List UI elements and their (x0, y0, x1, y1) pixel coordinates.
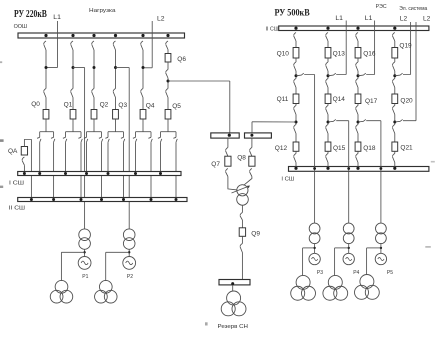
svg-text:L1: L1 (53, 14, 61, 21)
svg-text:Q20: Q20 (400, 98, 413, 105)
svg-text:II СШ: II СШ (9, 206, 25, 212)
svg-text:II СШ: II СШ (266, 27, 279, 33)
svg-text:Q17: Q17 (365, 98, 378, 105)
svg-text:Q21: Q21 (400, 145, 413, 152)
svg-text:Q7: Q7 (211, 161, 220, 168)
svg-text:Q1: Q1 (64, 101, 73, 108)
svg-text:Эл. система: Эл. система (399, 6, 427, 12)
svg-text:Q16: Q16 (363, 50, 376, 57)
svg-text:Q4: Q4 (146, 102, 155, 109)
svg-text:L1: L1 (335, 15, 343, 22)
svg-text:ООШ: ООШ (14, 24, 27, 30)
svg-text:Р2: Р2 (127, 274, 133, 280)
svg-text:L2: L2 (157, 16, 165, 23)
svg-text:L2: L2 (423, 16, 431, 23)
svg-text:РЭС: РЭС (376, 4, 387, 10)
svg-text:L2: L2 (400, 16, 408, 23)
svg-text:Q14: Q14 (333, 96, 346, 103)
svg-text:Q10: Q10 (277, 50, 290, 57)
svg-text:Нагрузка: Нагрузка (89, 8, 116, 14)
svg-text:Q6: Q6 (177, 56, 186, 63)
svg-text:Q13: Q13 (333, 50, 346, 57)
svg-text:Q8: Q8 (237, 154, 246, 161)
svg-text:Q15: Q15 (333, 145, 346, 152)
svg-text:Р1: Р1 (82, 274, 88, 280)
svg-text:L1: L1 (365, 15, 373, 22)
svg-text:I СШ: I СШ (9, 180, 24, 186)
svg-text:Q12: Q12 (275, 145, 288, 152)
svg-text:Q9: Q9 (251, 230, 260, 237)
svg-text:Q11: Q11 (277, 96, 289, 103)
svg-text:Q2: Q2 (100, 101, 109, 108)
svg-text:QA: QA (8, 148, 18, 155)
svg-text:Q18: Q18 (363, 145, 376, 152)
svg-text:Q3: Q3 (118, 102, 127, 109)
svg-text:Q19: Q19 (399, 43, 412, 50)
svg-text:Q0: Q0 (31, 101, 40, 108)
svg-text:РУ 220кВ: РУ 220кВ (14, 9, 47, 20)
svg-text:Резерв СН: Резерв СН (218, 324, 249, 330)
svg-text:Р4: Р4 (353, 270, 359, 276)
svg-text:Q5: Q5 (172, 103, 181, 110)
svg-text:РУ 500кВ: РУ 500кВ (275, 8, 311, 19)
svg-text:Р5: Р5 (387, 270, 393, 276)
svg-text:Р3: Р3 (317, 270, 323, 276)
svg-text:I СШ: I СШ (281, 176, 294, 182)
